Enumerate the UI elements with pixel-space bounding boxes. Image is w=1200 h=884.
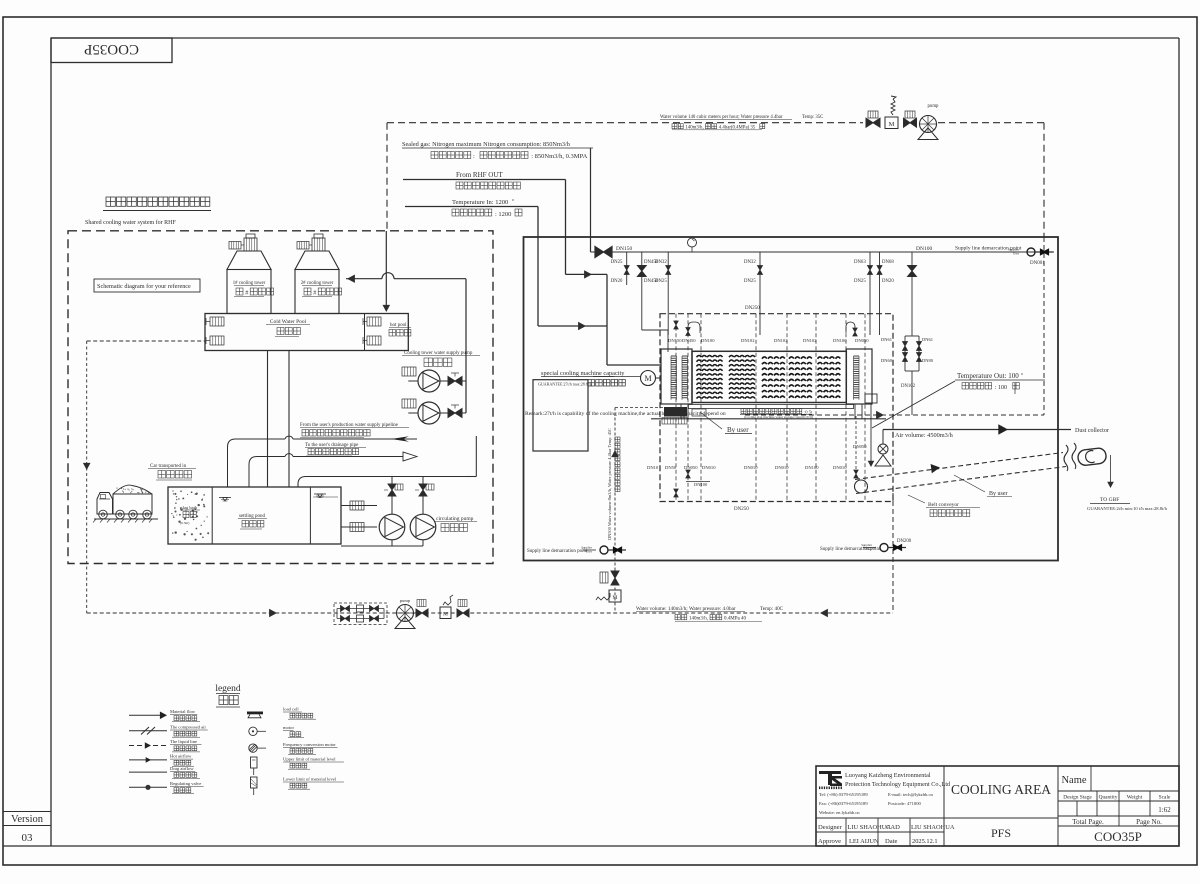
svg-text:CAD: CAD	[886, 824, 900, 831]
svg-text:Page No.: Page No.	[1136, 818, 1162, 826]
svg-text:Fax: (+86)0379-65195189: Fax: (+86)0379-65195189	[819, 801, 868, 806]
svg-text:Sealed gas: Nitrogen maximum N: Sealed gas: Nitrogen maximum Nitrogen co…	[402, 141, 571, 148]
svg-text:Weight: Weight	[1127, 795, 1143, 801]
svg-text:Belt conveyor: Belt conveyor	[928, 502, 959, 508]
svg-text:DN32: DN32	[655, 260, 667, 265]
svg-text:DN150: DN150	[616, 246, 632, 252]
svg-text:DN102: DN102	[803, 338, 817, 343]
svg-text::: :	[473, 153, 475, 160]
svg-text:DN250: DN250	[745, 306, 760, 311]
svg-text:circulating pump: circulating pump	[436, 516, 474, 522]
svg-text:0.4MPa 40: 0.4MPa 40	[724, 617, 746, 622]
svg-text:LIU SHAOHUA: LIU SHAOHUA	[848, 824, 892, 831]
svg-text:Designer: Designer	[818, 824, 843, 831]
svg-text:Website: en.lykzhb.cn: Website: en.lykzhb.cn	[819, 810, 860, 815]
svg-text:By user: By user	[989, 491, 1008, 497]
svg-text:DN100: DN100	[694, 482, 708, 487]
svg-text:DN150: DN150	[668, 338, 682, 343]
svg-text:load cell: load cell	[283, 707, 299, 712]
svg-text:DN250: DN250	[734, 507, 749, 512]
svg-text:DN20: DN20	[882, 279, 894, 284]
svg-text:COOLING AREA: COOLING AREA	[951, 782, 1051, 797]
svg-text:From RHF OUT: From RHF OUT	[456, 171, 503, 179]
svg-text:Lower limit of material level: Lower limit of material level	[283, 777, 337, 782]
svg-text:Design Stage: Design Stage	[1063, 795, 1092, 801]
svg-text:pump: pump	[928, 104, 940, 109]
svg-text:Shared cooling water system fo: Shared cooling water system for RHF	[85, 219, 176, 226]
svg-text:special cooling machine capaci: special cooling machine capacity	[541, 370, 625, 377]
svg-text:(0.5m): (0.5m)	[180, 521, 190, 525]
svg-text:DN102: DN102	[741, 338, 755, 343]
svg-text:DN32: DN32	[744, 260, 756, 265]
svg-text:Remark:27t/h is capability of: Remark:27t/h is capability of the coolin…	[525, 410, 726, 417]
svg-text:By user: By user	[727, 426, 749, 434]
svg-text:slag bath: slag bath	[181, 505, 198, 510]
svg-text:COO35P: COO35P	[1094, 829, 1142, 844]
svg-text:Version: Version	[11, 814, 44, 825]
svg-text:The liquid line: The liquid line	[170, 739, 197, 744]
svg-text:Scale: Scale	[1159, 795, 1171, 801]
svg-text:DN010: DN010	[775, 465, 789, 470]
svg-text:motor: motor	[283, 725, 294, 730]
svg-text:DN50: DN50	[665, 465, 677, 470]
svg-text:2025.12.1: 2025.12.1	[912, 838, 938, 845]
svg-text:DN050: DN050	[853, 444, 867, 449]
svg-text:Material flow: Material flow	[170, 709, 196, 714]
svg-text:DN100: DN100	[805, 465, 819, 470]
svg-text::0.5t: :0.5t	[804, 410, 813, 415]
svg-text:03: 03	[22, 832, 34, 844]
svg-text:Water volume: 140m3/h; Water p: Water volume: 140m3/h; Water pressure: 4…	[636, 606, 736, 612]
svg-text:DN10: DN10	[647, 465, 659, 470]
svg-text:Schematic diagram for your ref: Schematic diagram for your reference	[97, 283, 191, 290]
svg-text:: 100: : 100	[995, 385, 1007, 391]
svg-text:DN010: DN010	[702, 465, 716, 470]
svg-text:140m3/h,: 140m3/h,	[685, 125, 703, 130]
svg-text:LEI AIJUN: LEI AIJUN	[849, 838, 879, 845]
svg-text:o: o	[512, 197, 514, 202]
svg-text:DN25: DN25	[744, 279, 756, 284]
svg-text:#: #	[245, 291, 248, 297]
svg-text:1:62: 1:62	[1158, 806, 1171, 814]
svg-text:pump: pump	[400, 598, 411, 603]
svg-text:Postcode: 471000: Postcode: 471000	[888, 801, 921, 806]
svg-text:GUARANTEE:27t/h max:28.8t/h: GUARANTEE:27t/h max:28.8t/h	[538, 382, 592, 387]
svg-text:DN60: DN60	[881, 358, 893, 363]
svg-text:DN25: DN25	[611, 260, 623, 265]
svg-text:DN68: DN68	[882, 260, 894, 265]
svg-text:DN25: DN25	[655, 279, 667, 284]
svg-text:Cold Water Pool: Cold Water Pool	[270, 319, 307, 325]
svg-text:Quantity: Quantity	[1099, 795, 1118, 801]
svg-text:M: M	[613, 595, 618, 601]
svg-text:DN102: DN102	[901, 384, 916, 389]
svg-text:Drag airflow: Drag airflow	[170, 766, 194, 771]
svg-text:M: M	[443, 612, 448, 618]
svg-text:DN450: DN450	[682, 338, 696, 343]
svg-text:M: M	[889, 121, 895, 128]
svg-text:140m3/h,: 140m3/h,	[689, 617, 708, 622]
svg-text:: 1200: : 1200	[495, 211, 511, 218]
svg-text:E-mail: tech@lykzhb.cn: E-mail: tech@lykzhb.cn	[888, 792, 933, 797]
svg-text:4.4bar(0.4MPa) 35: 4.4bar(0.4MPa) 35	[719, 125, 756, 130]
svg-text:Dust collector: Dust collector	[1075, 428, 1109, 434]
svg-text:Regulating valve: Regulating valve	[170, 781, 201, 786]
svg-text:DN001: DN001	[1030, 261, 1045, 266]
svg-text:#: #	[313, 291, 316, 297]
svg-text:DN050: DN050	[855, 338, 869, 343]
svg-text:The compressed air: The compressed air	[170, 725, 206, 730]
svg-text:Temperature In: 1200: Temperature In: 1200	[452, 199, 508, 206]
svg-text:Air volume: 4500m3/h: Air volume: 4500m3/h	[895, 432, 954, 439]
svg-text:Hot airflow: Hot airflow	[170, 754, 192, 759]
svg-text:Total Page.: Total Page.	[1072, 818, 1104, 826]
svg-text:Upper limit of material level: Upper limit of material level	[283, 757, 336, 762]
svg-text:DN20: DN20	[611, 279, 623, 284]
svg-text:Name: Name	[1061, 775, 1086, 786]
svg-text:LIU SHAOHUA: LIU SHAOHUA	[911, 824, 955, 831]
svg-text:DN61: DN61	[922, 337, 933, 342]
svg-text:DN80: DN80	[922, 358, 934, 363]
svg-text:DN100: DN100	[916, 246, 932, 252]
svg-text:Tel: (+86) 0379-65195189: Tel: (+86) 0379-65195189	[819, 792, 868, 797]
svg-text:(Cooling slag machine water st: (Cooling slag machine water storage capa…	[744, 415, 813, 419]
svg-text:DN010: DN010	[744, 465, 758, 470]
svg-text:COO35P: COO35P	[84, 41, 139, 57]
svg-text:GUARANTEE:2t/h min:10 t/h max:: GUARANTEE:2t/h min:10 t/h max:28.8t/h	[1087, 506, 1168, 511]
svg-text:PFS: PFS	[991, 826, 1011, 840]
svg-text:Temp: 35C: Temp: 35C	[802, 115, 823, 120]
svg-text:DN050: DN050	[684, 465, 698, 470]
svg-text:legend: legend	[215, 684, 241, 694]
svg-text:Temperature Out: 100: Temperature Out: 100	[957, 372, 1019, 380]
svg-text:Luoyang Kaizheng Environmental: Luoyang Kaizheng Environmental	[845, 772, 931, 779]
svg-text:Frequency conversion motor: Frequency conversion motor	[283, 742, 336, 747]
svg-text:: 850Nm3/h, 0.3MPA: : 850Nm3/h, 0.3MPA	[531, 153, 587, 160]
svg-text:DN100: DN100	[701, 338, 715, 343]
svg-text:Date: Date	[885, 838, 898, 845]
svg-text:DN102: DN102	[774, 338, 788, 343]
svg-text:DN200: DN200	[897, 539, 912, 544]
svg-text:DN63: DN63	[854, 260, 866, 265]
svg-text:Protection Technology Equipmen: Protection Technology Equipment Co.,Ltd	[845, 781, 951, 788]
svg-text:DN100: DN100	[833, 338, 847, 343]
svg-text:DN25: DN25	[854, 279, 866, 284]
svg-text:o: o	[1021, 371, 1023, 376]
svg-text:Supply line demarcation point: Supply line demarcation point	[527, 549, 588, 554]
svg-text:DN010: DN010	[833, 465, 847, 470]
svg-text:Temp: 40C: Temp: 40C	[760, 606, 784, 612]
svg-text:M: M	[644, 374, 651, 383]
svg-text:DN61: DN61	[881, 337, 892, 342]
svg-text:TO GBF: TO GBF	[1100, 497, 1119, 503]
svg-text:Approve: Approve	[818, 838, 841, 845]
